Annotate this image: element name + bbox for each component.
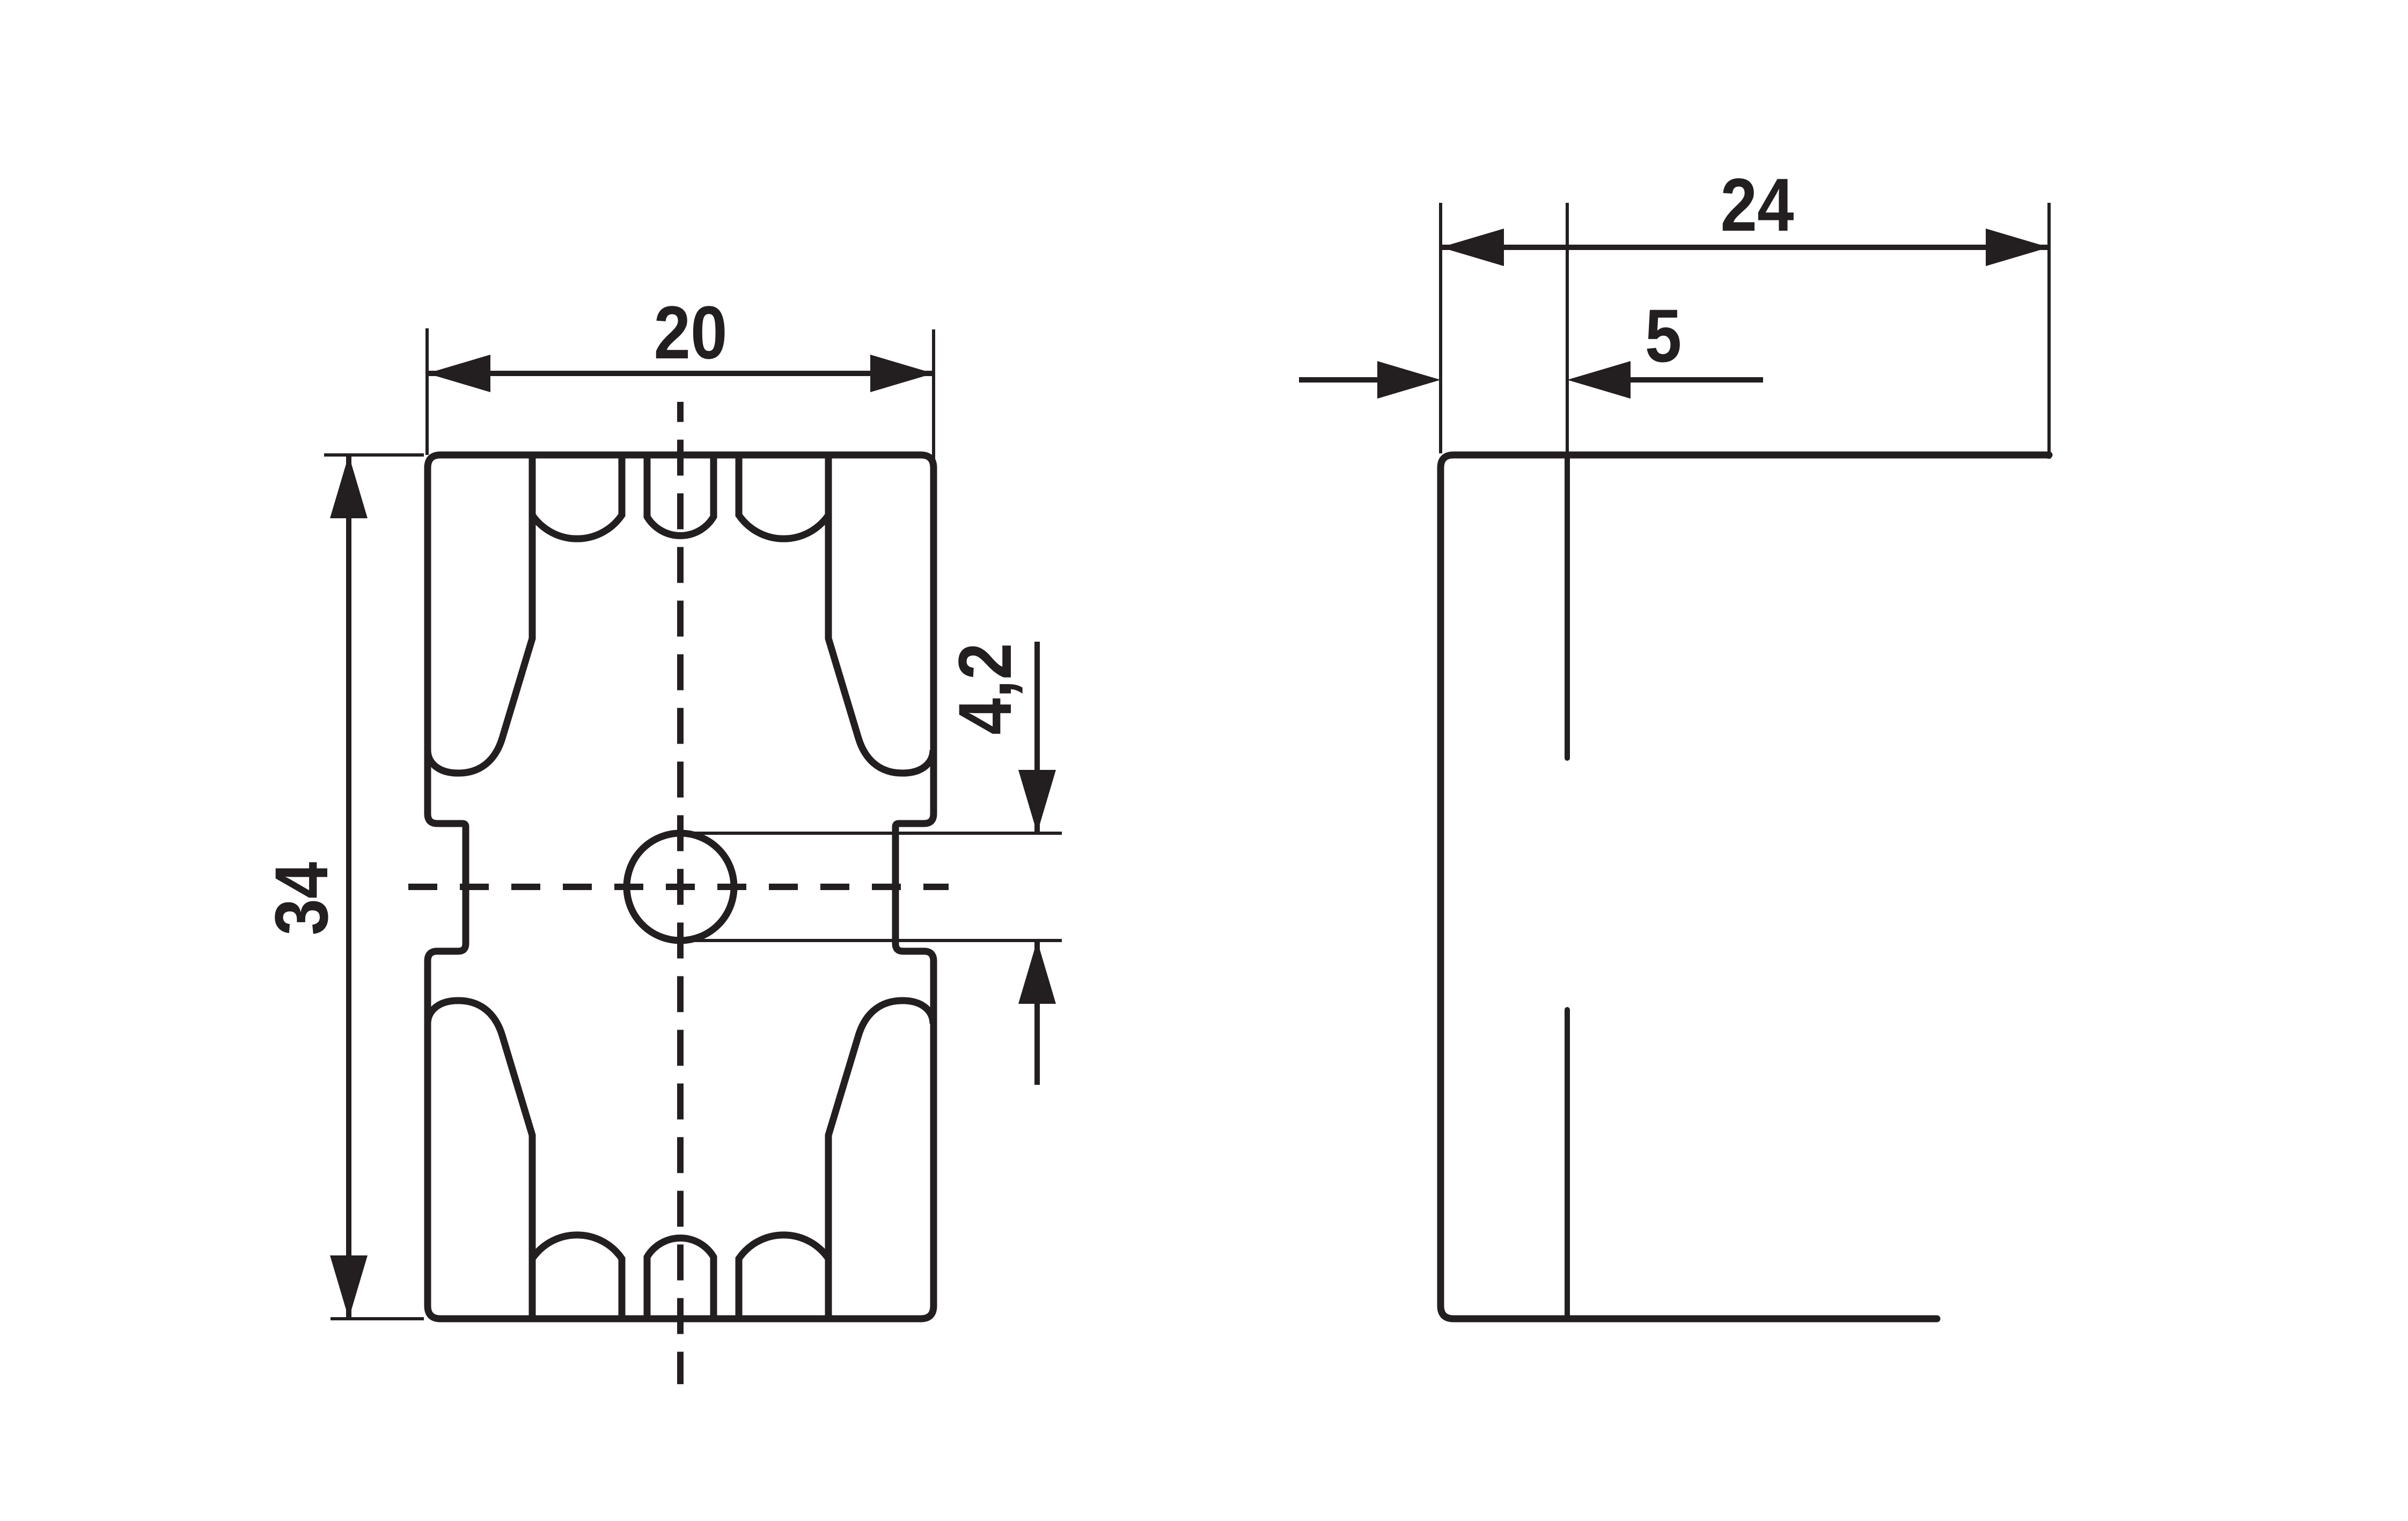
lower central bay	[647, 1238, 714, 1319]
lower left bay	[532, 1235, 622, 1319]
dim 5 right tail line	[1631, 377, 1763, 383]
upper central bay	[647, 455, 714, 535]
dim 34 dimension line	[346, 455, 351, 1319]
front view outer profile with side notches	[428, 455, 934, 1319]
upper left bay	[532, 455, 622, 539]
dim 5 right arrowhead	[1567, 361, 1631, 399]
dim 24 right arrowhead	[1986, 229, 2049, 266]
side view inner edge lower segment	[1565, 1010, 1570, 1319]
upper right spring finger	[828, 455, 933, 773]
dim 34 top arrowhead	[330, 455, 368, 518]
vertical centerline	[677, 402, 684, 1384]
dim 20 left arrowhead	[427, 355, 490, 392]
dim 4,2 lower tangent extension line	[680, 939, 1062, 942]
svg-text:34: 34	[260, 862, 343, 935]
dim 24 left arrowhead	[1441, 229, 1504, 266]
lower left spring finger	[428, 1001, 532, 1319]
center hole	[627, 833, 734, 940]
dim 20 right extension line	[932, 329, 935, 462]
side view outline	[1441, 455, 2049, 1319]
dim 20 left extension line	[425, 328, 429, 455]
dim 4,2 lower arrowhead	[1018, 940, 1056, 1004]
dim 24 left extension line	[1439, 203, 1442, 453]
dim 24 middle extension line	[1566, 203, 1569, 455]
svg-text:24: 24	[1720, 163, 1794, 247]
dim 20 dimension line	[427, 371, 934, 376]
lower right bay	[739, 1235, 828, 1319]
dim 34 top extension line	[324, 453, 424, 457]
side view inner edge upper segment	[1565, 455, 1570, 758]
dim 34 bottom extension line	[331, 1317, 424, 1320]
dim 24 right extension line	[2047, 203, 2051, 459]
dim 4,2 upper tangent extension line	[680, 832, 1062, 835]
horizontal centerline	[408, 884, 949, 890]
svg-text:5: 5	[1645, 294, 1682, 378]
dim 34 bottom arrowhead	[330, 1255, 368, 1319]
svg-text:20: 20	[654, 291, 727, 374]
dim 20 right arrowhead	[870, 355, 934, 392]
lower right spring finger	[828, 1001, 933, 1319]
svg-text:4,2: 4,2	[943, 643, 1027, 734]
dim 24 dimension line	[1441, 245, 2049, 250]
dim 4,2 lower dimension line	[1034, 940, 1040, 1085]
dim 4,2 upper arrowhead	[1018, 770, 1056, 833]
upper right bay	[739, 455, 828, 539]
dim 5 left arrowhead	[1377, 361, 1441, 399]
dim 5 left tail line	[1299, 377, 1379, 383]
dim 4,2 upper dimension line	[1034, 642, 1040, 833]
upper left spring finger	[428, 455, 532, 773]
